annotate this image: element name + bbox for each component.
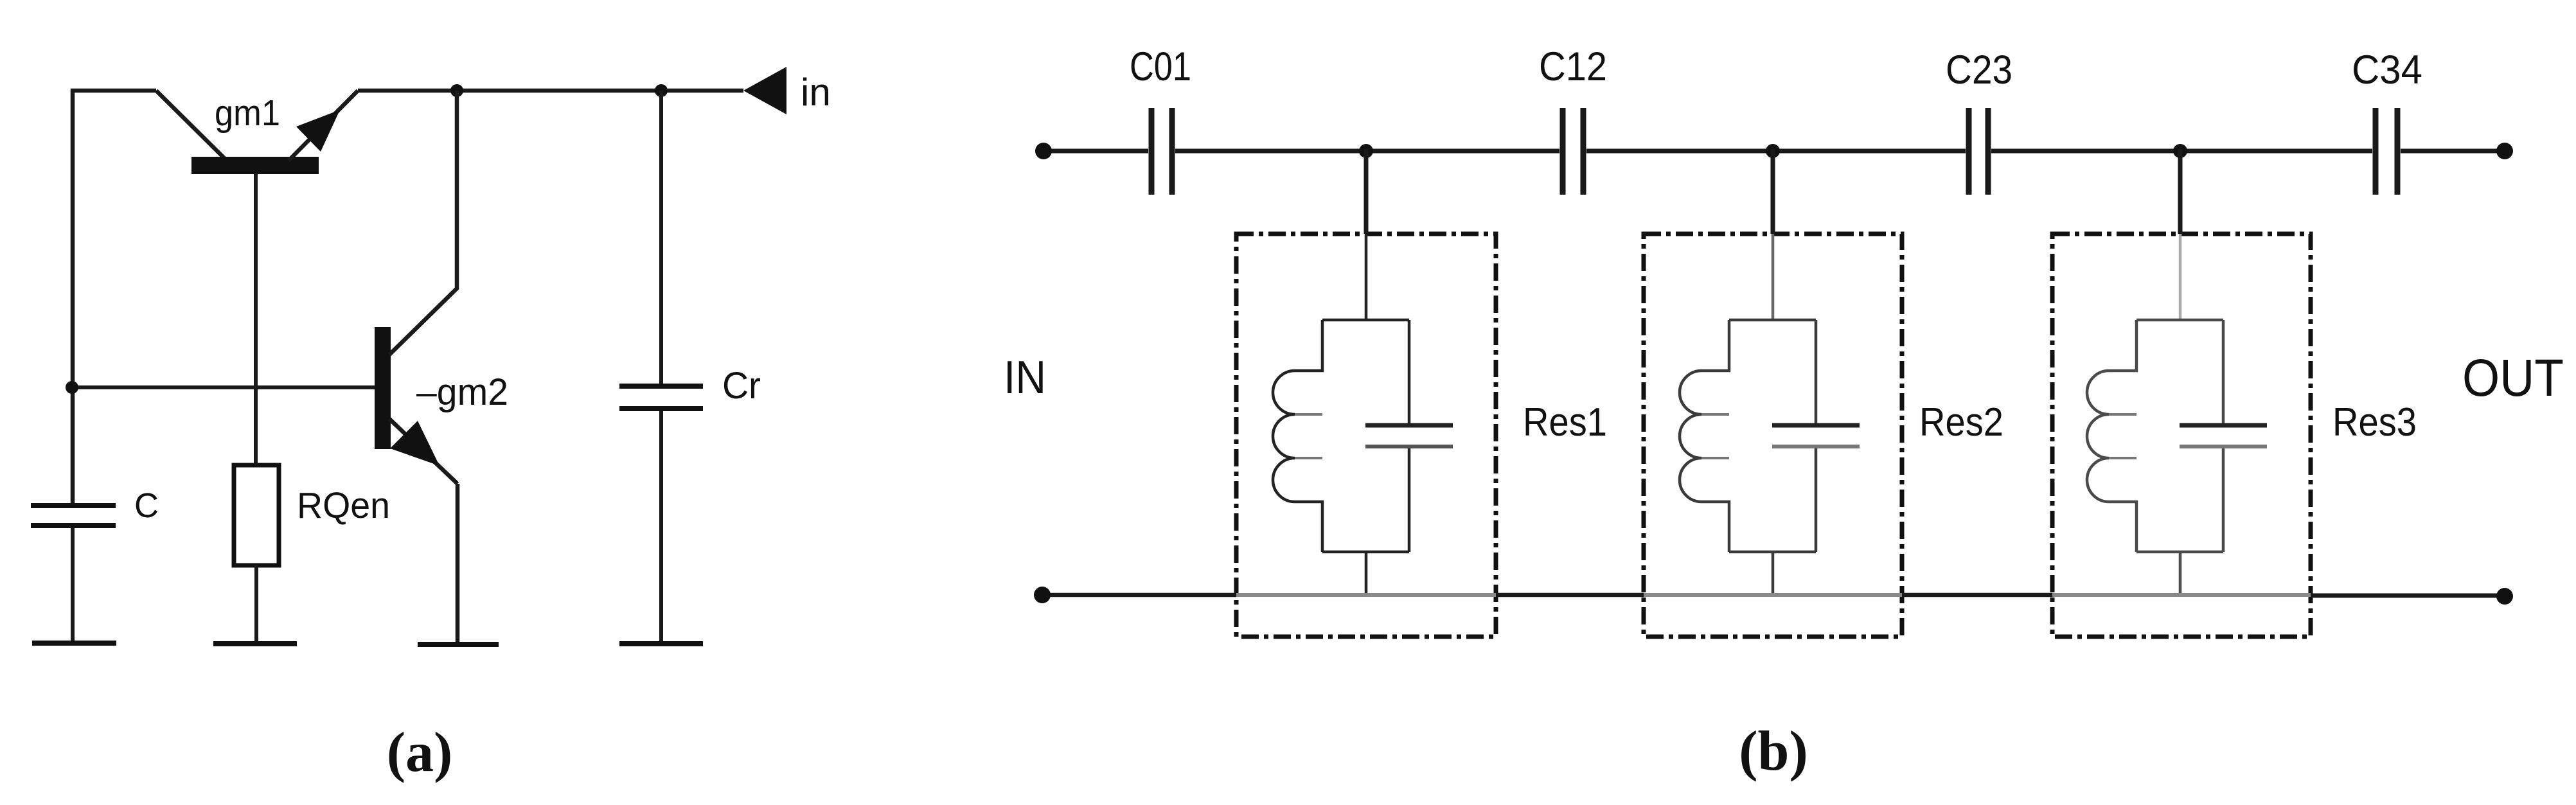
ground (under gm2 emitter) [418,642,499,647]
wire: left vertical rail + top wire to gm1 emitter [73,91,156,504]
inductor L of Res1 (left branch with 3 coil arcs) [1273,320,1322,552]
input terminal arrow "in" [743,67,786,114]
wire: Res1 bottom to ground bus [1365,552,1368,595]
wire: RQen bottom to ground [254,565,258,642]
capacitor C of Res2 (right branch) [1815,320,1818,552]
node IN terminal dot [1035,143,1052,159]
LC loop top/bottom wires of Res2 [1729,320,1816,552]
svg-text:C: C [134,486,159,525]
resonator Res2 dash-dot box [1644,234,1902,637]
svg-text:IN: IN [1004,352,1046,403]
capacitor C of Res3 (right branch) [2222,320,2225,552]
wire: bottom ground bus segments [1042,593,1236,597]
node OUT terminal dot [2496,143,2513,159]
wire: C bottom to ground [71,528,75,641]
transistor gm2 emitter leg [389,419,457,484]
ground (under C) [32,641,116,646]
wire: mid horizontal (node between C, base of gm2) [72,385,375,389]
wire: gm2 emitter to ground [456,484,460,642]
LC loop top/bottom wires of Res1 [1322,320,1409,552]
capacitor Cr [619,386,703,409]
svg-text:gm1: gm1 [215,93,280,134]
transistor gm1 base bar [191,157,319,174]
svg-text:C01: C01 [1130,44,1191,89]
node bottom-right terminal dot [2496,588,2513,605]
svg-text:Cr: Cr [722,365,761,407]
wire: Res2 bottom to ground bus [1772,552,1775,595]
resonator Res1 dash-dot box [1236,234,1496,637]
capacitor C [31,506,116,526]
wire: Res3 bottom to ground bus [2179,552,2182,595]
wire: node to Res2 top [1771,149,1775,234]
transistor gm2 collector leg + wire to top rail [389,91,457,355]
node: junction dot at C [66,381,78,394]
transistor gm1 collector leg [289,91,358,161]
svg-text:in: in [801,71,831,114]
ground (under RQen) [213,641,297,646]
node junction dot 2 [1766,144,1780,158]
svg-text:–gm2: –gm2 [416,371,508,413]
transistor gm1 arrow [296,110,340,152]
capacitor C23 [1969,108,1988,195]
wire: gm1 base vertical down to RQen [254,173,258,465]
svg-text:C12: C12 [1539,44,1607,89]
wire: node to Res1 top [1364,149,1369,234]
wire: Cr bottom to ground [659,411,663,642]
svg-text:Res1: Res1 [1523,400,1607,445]
node junction dot 3 [2173,144,2187,158]
transistor gm2 base bar [375,327,391,449]
svg-text:OUT: OUT [2462,349,2564,407]
node junction dot 1 [1359,144,1373,158]
capacitor C01 [1151,108,1172,195]
wire: node to Res3 top [2178,149,2183,234]
svg-text:Res2: Res2 [1919,400,2003,445]
svg-text:(a): (a) [387,721,453,784]
svg-text:RQen: RQen [297,485,390,526]
transistor gm2 arrow [390,421,440,466]
wire: top rail to input arrow [358,89,743,93]
svg-text:C23: C23 [1946,48,2012,93]
resistor RQen [234,465,279,565]
resonator Res3 dash-dot box [2052,234,2311,637]
node: collector junction dot [450,84,463,97]
node bottom-left terminal dot [1034,587,1051,603]
transistor gm1 emitter leg [156,91,227,161]
capacitor C of Res1 (right branch) [1408,320,1411,552]
svg-text:Res3: Res3 [2332,400,2417,445]
node: Cr junction dot [655,84,668,97]
ground (under Cr) [619,641,703,646]
svg-text:C34: C34 [2352,48,2422,93]
svg-text:(b): (b) [1739,720,1808,783]
inductor L of Res3 (left branch with 3 coil arcs) [2087,320,2136,552]
LC loop top/bottom wires of Res3 [2136,320,2223,552]
wire: Cr top [659,91,663,384]
capacitor C34 [2376,108,2397,195]
inductor L of Res2 (left branch with 3 coil arcs) [1680,320,1729,552]
wire: top bus segments [1044,149,2505,154]
capacitor C12 [1563,108,1583,195]
